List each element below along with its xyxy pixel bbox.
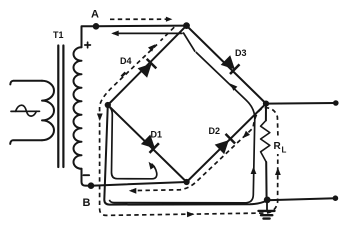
wire right node to positive output terminal: [266, 102, 336, 105]
wire from left node down and along bottom to ground junction: [104, 105, 267, 205]
AC source sine symbol on primary lead: [11, 105, 40, 116]
solid flow line from left node down with hook arrow into D1 branch: [110, 108, 157, 179]
bridge branch with D3 (top node to right node): [187, 26, 267, 104]
dash blob on D4 parallel: [122, 73, 126, 77]
node B: [88, 182, 95, 189]
diode D1 symbol: [142, 136, 159, 153]
bridge branch with D4 (left node to top node): [108, 26, 187, 105]
svg-text:R: R: [274, 141, 282, 152]
primary top lead: [10, 81, 42, 85]
svg-text:A: A: [91, 9, 99, 21]
dashed flow arrowhead up right of R_L: [275, 168, 281, 176]
svg-text:L: L: [282, 146, 287, 155]
dashed flow arrowhead down on left vertical: [97, 114, 103, 122]
label - polarity: [84, 174, 90, 176]
bridge branch with D2 (bottom node to right node): [187, 104, 266, 182]
solid flow arrowhead pointing left under top wire: [111, 31, 119, 37]
positive output terminal: [333, 100, 339, 106]
solid electron-flow line beside D3 and left of R_L down to bottom rail: [109, 52, 254, 203]
ground stub: [266, 200, 268, 209]
resistor R_L zigzag: [261, 121, 270, 163]
bottom bridge node: [184, 179, 190, 185]
dashed flow arrowhead right on bottom rail: [187, 212, 195, 218]
dashed flow line parallel to D4 branch down to left vertical and bottom rail: [161, 27, 175, 41]
primary winding P of T1: [42, 81, 54, 140]
wire secondary bottom lead to node B: [82, 169, 92, 186]
primary bottom lead: [10, 140, 42, 144]
wire secondary top lead to node A: [82, 26, 97, 47]
diode D3 symbol: [222, 57, 240, 74]
wire node B to bottom bridge node: [91, 182, 187, 186]
transformer core line 2: [62, 46, 64, 168]
wire ground junction to negative output terminal: [266, 198, 335, 200]
left bridge node: [105, 102, 111, 108]
wire node A to top bridge node: [96, 25, 187, 28]
svg-text:D2: D2: [209, 126, 221, 136]
ground junction node: [264, 197, 271, 204]
secondary winding of T1: [73, 47, 81, 169]
solid electron-flow line: top node to node A (with left arrow): [114, 33, 195, 51]
svg-text:D3: D3: [235, 48, 247, 58]
ground bar 3: [264, 217, 270, 219]
solid flow arrowhead up-left beside D3: [230, 84, 237, 91]
svg-text:D4: D4: [120, 56, 132, 66]
wire R_L bottom stem to ground junction: [265, 162, 267, 200]
dashed flow arrowhead up-right on D4 parallel: [148, 44, 155, 51]
bridge branch with D1 (left node to bottom node): [108, 105, 187, 182]
dashed flow arrowhead left under B wire: [129, 188, 137, 194]
svg-text:T1: T1: [53, 30, 64, 40]
wire R_L top stem: [265, 104, 267, 121]
diode D2 symbol: [216, 134, 235, 153]
svg-text:B: B: [83, 197, 91, 209]
ground bar 1: [259, 210, 275, 212]
dashed flow arrowhead pointing right above top wire: [166, 17, 173, 22]
ground bar 2: [261, 214, 272, 216]
negative output terminal: [333, 195, 339, 201]
svg-text:D1: D1: [151, 130, 163, 140]
top bridge node: [183, 22, 190, 29]
transformer core line 1: [57, 46, 59, 168]
dashed flow arrowhead down-left beside D2: [243, 131, 250, 138]
node A: [93, 23, 100, 30]
dashed electron-flow line above top wire (A toward top node): [110, 18, 166, 20]
solid flow hook arrowhead pointing up-left at D1: [149, 162, 156, 170]
label + polarity: [85, 42, 91, 48]
diode D4 symbol: [139, 59, 156, 77]
dashed flow curve from right of R_L over to D2 branch and to node B: [131, 108, 278, 191]
solid flow arrowhead up beside R_L: [251, 167, 257, 175]
right bridge node: [263, 101, 269, 107]
